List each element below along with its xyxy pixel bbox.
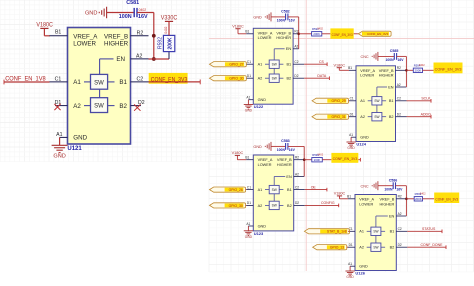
svg-text:D2: D2 bbox=[398, 243, 402, 247]
port GPIO_27 bbox=[210, 62, 247, 67]
svg-text:16V: 16V bbox=[398, 58, 405, 62]
ground GND at U123 pin A1 bbox=[244, 231, 253, 239]
switch SW1 bbox=[265, 60, 283, 68]
svg-text:R2: R2 bbox=[137, 31, 144, 37]
net label CONF_EN_1V8 bbox=[5, 77, 46, 83]
EN control line bbox=[377, 87, 387, 113]
pin C2 (B1) bbox=[286, 60, 304, 67]
svg-text:LOWER: LOWER bbox=[359, 202, 373, 206]
pin D1 (A2) bbox=[349, 113, 365, 120]
svg-text:C583: C583 bbox=[281, 139, 290, 143]
EN control line bbox=[100, 59, 114, 98]
resistor R595 200K bbox=[312, 152, 324, 162]
svg-text:U123: U123 bbox=[254, 231, 264, 236]
svg-text:GPIO_27: GPIO_27 bbox=[229, 63, 243, 67]
svg-text:R2: R2 bbox=[398, 195, 402, 199]
junction at R2 row bbox=[297, 33, 300, 36]
svg-text:HIGHER: HIGHER bbox=[276, 36, 291, 40]
refdes U123 bbox=[254, 231, 264, 236]
svg-text:B1: B1 bbox=[348, 66, 352, 70]
svg-text:CONF_EN_3V3: CONF_EN_3V3 bbox=[333, 157, 358, 161]
svg-text:C581: C581 bbox=[126, 0, 139, 6]
svg-text:SW: SW bbox=[94, 80, 104, 86]
svg-text:A1: A1 bbox=[360, 99, 365, 103]
svg-text:SCLK: SCLK bbox=[421, 97, 431, 101]
wire DATA bbox=[304, 76, 329, 80]
net label CONF_EN_3V3 highlighted bbox=[434, 63, 463, 74]
pin R2 (VREF_B HIGHER) bbox=[380, 195, 407, 207]
IC U126 body bbox=[355, 195, 396, 271]
net label DATA bbox=[317, 74, 326, 78]
wire CS bbox=[304, 62, 327, 66]
svg-text:V180C: V180C bbox=[232, 24, 244, 28]
pin D1 (A2) bbox=[55, 100, 82, 110]
svg-text:U124: U124 bbox=[356, 142, 366, 147]
port GPIO_30 bbox=[210, 203, 246, 208]
svg-text:C2: C2 bbox=[397, 97, 401, 101]
svg-text:V180C: V180C bbox=[334, 192, 346, 196]
ground GND at U121 pin A1 bbox=[52, 145, 68, 159]
wire V180C to pin B1 bbox=[44, 35, 50, 37]
wire C581 to net junctions bbox=[137, 13, 154, 60]
resistor R596 200K bbox=[414, 192, 426, 202]
svg-text:GND: GND bbox=[253, 16, 262, 20]
svg-text:GND: GND bbox=[253, 145, 262, 149]
svg-text:OE: OE bbox=[311, 185, 317, 189]
svg-text:SW: SW bbox=[374, 115, 379, 119]
switch SW2 bbox=[368, 113, 386, 121]
svg-text:A1: A1 bbox=[246, 96, 250, 100]
svg-text:100N: 100N bbox=[277, 148, 286, 152]
svg-text:SW: SW bbox=[373, 246, 378, 250]
net label CONF_DONE bbox=[421, 243, 444, 247]
ground GND at U126 pin A1 bbox=[345, 271, 354, 279]
svg-text:CONF_EN_3V3: CONF_EN_3V3 bbox=[332, 33, 353, 37]
svg-text:HIGHER: HIGHER bbox=[380, 202, 395, 206]
svg-text:GND: GND bbox=[258, 224, 267, 228]
wire CONF_EN_1V8 to pin C1 bbox=[4, 80, 50, 85]
svg-text:GPIO_31: GPIO_31 bbox=[332, 115, 346, 119]
svg-text:200K: 200K bbox=[313, 32, 320, 36]
svg-text:VREF_B: VREF_B bbox=[104, 33, 128, 40]
pin C1 (A1) bbox=[349, 97, 365, 104]
svg-text:A2: A2 bbox=[73, 103, 81, 110]
wire A1 to ground bbox=[350, 137, 352, 142]
pin A2 (EN) bbox=[116, 53, 148, 63]
svg-text:LOWER: LOWER bbox=[73, 41, 96, 48]
svg-text:GND: GND bbox=[258, 98, 267, 102]
svg-text:GND: GND bbox=[359, 265, 368, 269]
pin A2 (EN) bbox=[286, 45, 299, 52]
net label CS bbox=[319, 60, 325, 64]
svg-text:GND: GND bbox=[245, 109, 253, 113]
refdes U121 bbox=[67, 146, 82, 152]
svg-text:A2: A2 bbox=[258, 77, 263, 81]
svg-text:EN: EN bbox=[388, 85, 394, 89]
wire ground to C585 bbox=[378, 55, 394, 57]
port GPIO_31 bbox=[312, 114, 349, 119]
svg-text:A2: A2 bbox=[295, 172, 299, 176]
IC U123 body bbox=[253, 155, 293, 231]
wire C586 to junction bbox=[396, 186, 407, 216]
switch SW2 bbox=[265, 201, 283, 209]
wire SCLK bbox=[407, 99, 432, 103]
svg-text:HIGHER: HIGHER bbox=[379, 74, 394, 78]
svg-text:200K: 200K bbox=[168, 37, 174, 49]
svg-text:V180C: V180C bbox=[333, 63, 345, 67]
svg-text:D2: D2 bbox=[294, 74, 298, 78]
svg-text:A2: A2 bbox=[258, 204, 263, 208]
svg-text:B2: B2 bbox=[286, 77, 291, 81]
svg-text:D2: D2 bbox=[295, 201, 299, 205]
wire ADDO bbox=[407, 115, 432, 119]
pin A1 (GND) bbox=[56, 132, 87, 141]
wire C583 to junction bbox=[288, 146, 304, 176]
pin D1 (A2) bbox=[246, 74, 262, 81]
pin C1 (A1) bbox=[348, 227, 364, 234]
svg-text:100N: 100N bbox=[384, 187, 393, 191]
svg-text:B1: B1 bbox=[347, 195, 351, 199]
svg-text:A2: A2 bbox=[397, 83, 401, 87]
svg-text:VREF_A: VREF_A bbox=[359, 198, 374, 202]
wire A2 row to R592 bbox=[149, 52, 170, 59]
pin A1 (GND) bbox=[348, 262, 368, 269]
svg-text:B2: B2 bbox=[287, 204, 292, 208]
pin C1 (A1) bbox=[246, 185, 262, 192]
svg-text:LOWER: LOWER bbox=[258, 163, 272, 167]
pin C2 (B1) bbox=[287, 185, 305, 192]
IC U124 body bbox=[356, 66, 396, 142]
svg-text:GND: GND bbox=[53, 154, 65, 160]
svg-text:VREF_B: VREF_B bbox=[380, 198, 395, 202]
svg-text:100N: 100N bbox=[277, 19, 286, 23]
svg-text:U126: U126 bbox=[355, 271, 365, 276]
switch SW1 bbox=[368, 97, 386, 105]
svg-text:B1: B1 bbox=[55, 30, 61, 36]
svg-text:HIGHER: HIGHER bbox=[277, 163, 292, 167]
svg-text:CONFIG: CONFIG bbox=[321, 201, 335, 205]
svg-text:EN: EN bbox=[286, 47, 292, 51]
svg-text:A1: A1 bbox=[246, 222, 250, 226]
capacitor C583 100N 16V bbox=[277, 139, 296, 152]
svg-text:B1: B1 bbox=[389, 99, 394, 103]
wire GPIO_29 to IC bbox=[348, 100, 351, 102]
pin A1 (GND) bbox=[246, 96, 266, 103]
svg-text:EN: EN bbox=[389, 214, 395, 218]
pin A2 (EN) bbox=[388, 83, 406, 90]
power V180C bbox=[36, 22, 53, 36]
svg-text:A1: A1 bbox=[258, 63, 263, 67]
svg-text:B1: B1 bbox=[245, 156, 249, 160]
svg-text:C1: C1 bbox=[247, 185, 251, 189]
net label STATUS bbox=[422, 227, 436, 231]
wire junction to R593 bbox=[299, 33, 312, 35]
svg-text:C2: C2 bbox=[137, 76, 144, 82]
svg-text:0402: 0402 bbox=[139, 8, 147, 12]
port GPIO_29 bbox=[312, 98, 349, 103]
svg-text:A1: A1 bbox=[348, 262, 352, 266]
ground GND at U122 pin A1 bbox=[244, 105, 253, 113]
svg-text:ADDO: ADDO bbox=[421, 113, 431, 117]
svg-text:C1: C1 bbox=[247, 60, 251, 64]
svg-text:EN: EN bbox=[116, 56, 125, 63]
svg-text:VREF_A: VREF_A bbox=[73, 33, 98, 40]
svg-text:C2: C2 bbox=[294, 60, 298, 64]
svg-text:B1: B1 bbox=[245, 30, 249, 34]
svg-text:GPIO_13: GPIO_13 bbox=[330, 246, 344, 250]
svg-text:16V: 16V bbox=[289, 148, 296, 152]
svg-text:V330C: V330C bbox=[161, 16, 178, 22]
wire CONF_DONE bbox=[407, 245, 446, 249]
capacitor C586 100N 16V bbox=[384, 178, 403, 191]
svg-text:16V: 16V bbox=[138, 14, 148, 20]
pin D2 (B2) bbox=[390, 243, 408, 250]
switch SW1 bbox=[367, 227, 385, 235]
wire junction to R596 bbox=[406, 198, 414, 200]
svg-text:A2: A2 bbox=[359, 246, 364, 250]
svg-text:V180C: V180C bbox=[36, 22, 53, 28]
svg-text:C2: C2 bbox=[295, 185, 299, 189]
switch SW2 bbox=[84, 98, 115, 113]
capacitor C582 100N 16V bbox=[277, 10, 296, 23]
wire STAT_B_1v8 to IC bbox=[348, 230, 349, 232]
pin C1 (A1) bbox=[50, 76, 82, 86]
net label ADDO bbox=[421, 113, 431, 117]
capacitor C581 100N 16V bbox=[119, 0, 148, 20]
capacitor C585 100N 16V bbox=[385, 49, 404, 62]
pin B1 (VREF_A LOWER) bbox=[245, 30, 272, 41]
svg-text:C1: C1 bbox=[55, 76, 62, 82]
resistor R593 200K bbox=[312, 27, 324, 37]
net label CONF_EN_3V3 highlighted bbox=[434, 193, 459, 204]
refdes U124 bbox=[356, 142, 366, 147]
pin C2 (B1) bbox=[119, 76, 148, 86]
svg-text:C582: C582 bbox=[281, 10, 290, 14]
pin D2 (B2) bbox=[286, 74, 304, 81]
pin B1 (VREF_A LOWER) bbox=[347, 195, 374, 207]
svg-text:100N: 100N bbox=[119, 14, 132, 20]
wire STATUS bbox=[407, 230, 442, 234]
wire junction to R595 bbox=[304, 159, 312, 161]
svg-text:B1: B1 bbox=[119, 79, 127, 86]
power V180C (U124) bbox=[333, 63, 345, 70]
svg-text:SW: SW bbox=[272, 63, 277, 67]
no-connect X on D1 bbox=[54, 104, 60, 110]
svg-text:C1: C1 bbox=[350, 97, 354, 101]
svg-text:GND: GND bbox=[360, 136, 369, 140]
wire C585 to junction bbox=[397, 56, 407, 87]
pin A2 (EN) bbox=[389, 212, 406, 219]
cross-probe crosshair bbox=[209, 0, 474, 271]
power V180C (U123) bbox=[232, 151, 244, 160]
EN control line bbox=[376, 216, 388, 243]
svg-text:LOWER: LOWER bbox=[360, 74, 374, 78]
pin R2 (VREF_B HIGHER) bbox=[104, 31, 149, 48]
pin D1 (A2) bbox=[348, 243, 364, 250]
no-connect X on D2 bbox=[134, 104, 140, 110]
svg-text:VREF_B: VREF_B bbox=[277, 158, 292, 162]
wire GPIO_30 to IC bbox=[245, 77, 247, 79]
pin C1 (A1) bbox=[246, 60, 262, 67]
wire OE bbox=[305, 188, 327, 192]
svg-text:VREF_A: VREF_A bbox=[258, 158, 273, 162]
svg-text:C586: C586 bbox=[389, 178, 398, 182]
svg-text:V180C: V180C bbox=[232, 151, 244, 155]
wire GPIO_31 to IC bbox=[348, 116, 351, 118]
port GPIO_26 bbox=[210, 187, 246, 192]
svg-text:R2: R2 bbox=[397, 66, 401, 70]
pin D1 (A2) bbox=[246, 201, 262, 208]
svg-text:A1: A1 bbox=[73, 79, 81, 86]
wire CONFIG bbox=[305, 204, 339, 208]
wire junction to R594 bbox=[406, 69, 413, 71]
wire R594 to net label bbox=[423, 69, 434, 71]
ground CNC at C586 bbox=[360, 181, 377, 190]
wire ground to C583 bbox=[271, 145, 286, 147]
switch SW2 bbox=[367, 243, 385, 251]
wire V180C to pin B1 bbox=[339, 69, 349, 71]
svg-text:HIGHER: HIGHER bbox=[104, 41, 129, 48]
EN control line bbox=[274, 49, 284, 74]
wire ground to C582 bbox=[271, 16, 286, 18]
ground GND at C581 bbox=[85, 7, 107, 19]
svg-text:A2: A2 bbox=[398, 212, 402, 216]
svg-text:0402: 0402 bbox=[164, 26, 168, 33]
resistor R592 200K bbox=[158, 26, 175, 51]
svg-text:200K: 200K bbox=[415, 69, 422, 73]
switch SW2 bbox=[265, 74, 283, 82]
wire ground to C586 bbox=[378, 185, 393, 187]
pin A2 (EN) bbox=[286, 172, 304, 179]
pin B1 (VREF_A LOWER) bbox=[348, 66, 375, 78]
svg-text:CNC: CNC bbox=[360, 55, 368, 59]
ground CNC at C585 bbox=[360, 52, 377, 61]
wire net label to port bbox=[354, 33, 359, 35]
IC U122 body bbox=[253, 28, 293, 104]
net label OE bbox=[311, 185, 317, 189]
port CONF_EN_3V3 bbox=[358, 31, 391, 36]
svg-text:EN: EN bbox=[286, 175, 292, 179]
junction at R2 row bbox=[405, 69, 408, 72]
svg-text:R2: R2 bbox=[295, 156, 299, 160]
svg-text:16V: 16V bbox=[396, 187, 403, 191]
wire C582 to junction bbox=[288, 17, 299, 49]
svg-text:VREF_B: VREF_B bbox=[379, 69, 394, 73]
junction at A2 row bbox=[152, 57, 156, 61]
pin D2 (B2) bbox=[389, 113, 407, 120]
svg-text:SW: SW bbox=[374, 99, 379, 103]
power V180C (U126) bbox=[334, 192, 346, 199]
svg-text:B1: B1 bbox=[390, 230, 395, 234]
svg-text:GPIO_30: GPIO_30 bbox=[229, 77, 243, 81]
wire GPIO_30 to IC bbox=[245, 204, 248, 206]
net label CONFIG bbox=[321, 201, 335, 205]
svg-text:0402: 0402 bbox=[317, 27, 323, 31]
svg-text:GPIO_30: GPIO_30 bbox=[229, 204, 243, 208]
svg-text:GND: GND bbox=[73, 134, 87, 141]
svg-text:B2: B2 bbox=[389, 115, 394, 119]
svg-text:GPIO_26: GPIO_26 bbox=[229, 188, 243, 192]
net label SCLK bbox=[421, 97, 431, 101]
svg-text:SW: SW bbox=[373, 230, 378, 234]
wire C2 to CONF_EN_3V3 bbox=[149, 80, 201, 85]
wire A1 to ground bbox=[247, 100, 249, 105]
refdes U122 bbox=[254, 104, 264, 109]
wire GPIO_27 to IC bbox=[245, 63, 247, 65]
svg-text:STAT_B_1v8: STAT_B_1v8 bbox=[327, 230, 347, 234]
ground GND at C582 bbox=[253, 12, 271, 21]
svg-text:DATA: DATA bbox=[317, 74, 326, 78]
svg-text:GND: GND bbox=[245, 235, 253, 239]
svg-text:STATUS: STATUS bbox=[422, 227, 436, 231]
svg-text:100N: 100N bbox=[385, 58, 394, 62]
svg-text:200K: 200K bbox=[415, 197, 422, 201]
svg-text:D1: D1 bbox=[247, 74, 251, 78]
svg-text:C2: C2 bbox=[398, 227, 402, 231]
svg-text:B2: B2 bbox=[390, 246, 395, 250]
pin B1 (VREF_A LOWER) bbox=[50, 30, 99, 48]
wire A1 to ground bbox=[247, 226, 249, 231]
svg-text:LOWER: LOWER bbox=[258, 36, 272, 40]
svg-text:C585: C585 bbox=[390, 49, 399, 53]
svg-text:GND: GND bbox=[347, 146, 355, 150]
svg-text:D1: D1 bbox=[350, 113, 354, 117]
refdes U126 bbox=[355, 271, 365, 276]
svg-text:R592: R592 bbox=[158, 37, 164, 49]
switch SW1 bbox=[84, 74, 115, 89]
svg-text:200K: 200K bbox=[314, 158, 321, 162]
wire GND to C581 bbox=[107, 12, 134, 14]
svg-text:A1: A1 bbox=[349, 133, 353, 137]
IC U121 body bbox=[68, 28, 131, 145]
svg-text:A1: A1 bbox=[56, 132, 62, 138]
svg-text:D1: D1 bbox=[247, 201, 251, 205]
EN control line bbox=[274, 177, 285, 202]
power V330C bbox=[161, 16, 178, 36]
svg-text:SW: SW bbox=[94, 104, 104, 110]
power V180C (U122) bbox=[232, 24, 244, 33]
svg-text:GND: GND bbox=[346, 275, 354, 279]
svg-text:A2: A2 bbox=[136, 53, 142, 59]
svg-text:D1: D1 bbox=[349, 243, 353, 247]
svg-text:0402: 0402 bbox=[420, 192, 426, 196]
junction at R2 row bbox=[152, 34, 156, 38]
wire A1 to ground bbox=[349, 266, 351, 271]
svg-text:0402: 0402 bbox=[419, 63, 425, 67]
net label CONF_EN_3V3 highlighted bbox=[330, 28, 353, 38]
svg-text:SW: SW bbox=[272, 77, 277, 81]
wire R596 to net label bbox=[423, 198, 435, 200]
svg-text:A1: A1 bbox=[258, 188, 263, 192]
wire end after net label bbox=[358, 158, 360, 162]
svg-text:CNC: CNC bbox=[360, 184, 368, 188]
svg-text:CS: CS bbox=[319, 60, 325, 64]
net label CONF_EN_3V3 highlighted bbox=[331, 153, 358, 163]
svg-text:A2: A2 bbox=[294, 45, 298, 49]
pin C2 (B1) bbox=[389, 97, 407, 104]
pin R2 (VREF_B HIGHER) bbox=[277, 156, 304, 167]
wire A1 to ground bbox=[59, 137, 61, 145]
svg-text:VREF_A: VREF_A bbox=[360, 69, 375, 73]
wire GPIO_13 to IC bbox=[347, 246, 348, 248]
svg-text:CONF_EN_3V3: CONF_EN_3V3 bbox=[435, 68, 462, 72]
svg-text:CONF_EN_3V3: CONF_EN_3V3 bbox=[435, 197, 458, 201]
svg-text:A1: A1 bbox=[359, 230, 364, 234]
svg-text:CONF_EN_3V3: CONF_EN_3V3 bbox=[367, 32, 389, 36]
wire R595 to net label bbox=[322, 159, 331, 161]
wire V180C to pin B1 bbox=[237, 159, 246, 161]
pin R2 (VREF_B HIGHER) bbox=[379, 66, 407, 78]
